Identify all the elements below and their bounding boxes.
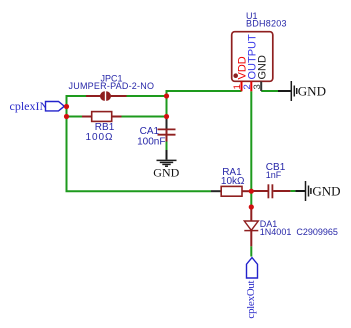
wire: DA1 to cplexOut <box>250 246 252 256</box>
junction at DA1 anode node <box>249 204 254 209</box>
capacitor CA1 <box>137 118 175 148</box>
wire: CA1 node vertical + top to U1 pin1 <box>167 91 242 118</box>
svg-text:10kΩ: 10kΩ <box>221 176 245 187</box>
svg-text:cplexIN: cplexIN <box>10 99 49 113</box>
junction at cplexIN port tip <box>64 104 69 109</box>
capacitor CB1 <box>254 162 291 198</box>
svg-text:100Ω: 100Ω <box>86 132 114 143</box>
wire: U1 pin2 down to RA1/CB1 junction and diode <box>250 91 252 206</box>
ground (CB1) <box>295 181 311 201</box>
resistor RB1 <box>82 112 122 143</box>
ground (U1 pin3) <box>278 81 297 101</box>
wire: CB1 right to GND <box>290 190 295 192</box>
op-amp U1 (BDH8203) <box>232 11 287 92</box>
junction at RB1 row / CA1 node <box>164 114 169 119</box>
svg-text:GND: GND <box>153 166 179 180</box>
junction at RB1 row left <box>64 114 69 119</box>
pin 2 OUTPUT <box>250 82 252 92</box>
junction at RA1 / CB1 / U1 pin2 node <box>249 189 254 194</box>
svg-text:GND: GND <box>298 83 326 98</box>
svg-text:1nF: 1nF <box>266 170 282 180</box>
ground (under CA1) <box>157 150 177 166</box>
wire: RB1 row <box>67 116 83 118</box>
wire: CA1 bottom to GND <box>166 142 168 151</box>
port cplexOut <box>245 258 258 319</box>
svg-text:GND: GND <box>256 55 268 80</box>
svg-text:JUMPER-PAD-2-NO: JUMPER-PAD-2-NO <box>69 81 155 91</box>
wire: cplexIN node left vertical + jumper row + RA1 row <box>67 96 212 191</box>
diode DA1 <box>244 208 338 246</box>
svg-text:3: 3 <box>252 84 263 89</box>
svg-text:BDH8203: BDH8203 <box>246 19 287 29</box>
pin 3 GND <box>260 82 262 92</box>
wire: jumper right to CA1 node <box>127 95 167 97</box>
svg-text:100nF: 100nF <box>137 136 165 147</box>
svg-text:1N4001_C2909965: 1N4001_C2909965 <box>260 227 338 237</box>
svg-text:cplexOut: cplexOut <box>245 280 257 318</box>
svg-text:CA1: CA1 <box>140 126 160 137</box>
svg-text:GND: GND <box>312 183 340 198</box>
wire: U1 pin3 to GND <box>261 90 278 92</box>
resistor RA1 <box>211 167 250 196</box>
junction at jumper row / CA1 node <box>164 93 169 98</box>
pin 1 VDD <box>241 82 243 92</box>
port cplexIN <box>10 99 65 113</box>
jumper JPC1 <box>69 74 155 101</box>
